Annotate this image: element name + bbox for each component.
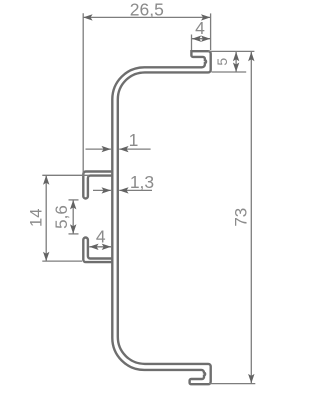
dimension 4 (top hook width) — [192, 18, 211, 50]
dimension 26,5 (overall width, top) — [83, 0, 210, 175]
svg-text:73: 73 — [232, 208, 251, 227]
dimension 1,3 (wall thickness at channel) — [93, 172, 154, 194]
dimension 5 (top hook height, right) — [212, 52, 247, 72]
lower bracket lip (left channel, open end up) — [83, 238, 113, 263]
dimension 4 (channel depth, lower bracket) — [89, 226, 111, 250]
dimension 14 (channel overall height, left) — [27, 175, 89, 261]
svg-text:26,5: 26,5 — [130, 0, 164, 20]
svg-text:5: 5 — [214, 58, 230, 66]
svg-text:4: 4 — [96, 226, 106, 246]
svg-text:14: 14 — [27, 209, 45, 227]
profile outline (sheet-metal rail cross-section with top and bottom hooks) — [112, 51, 210, 384]
svg-text:1: 1 — [129, 130, 139, 150]
svg-text:4: 4 — [195, 18, 205, 38]
dimension 1 (web wall thickness) — [86, 130, 151, 153]
svg-text:5,6: 5,6 — [52, 205, 71, 229]
dimension 5,6 (channel slot opening, left) — [52, 200, 78, 234]
svg-text:1,3: 1,3 — [130, 172, 154, 192]
upper bracket lip (left channel, open end down) — [83, 172, 113, 199]
dimension 73 (overall height, right) — [208, 51, 255, 383]
